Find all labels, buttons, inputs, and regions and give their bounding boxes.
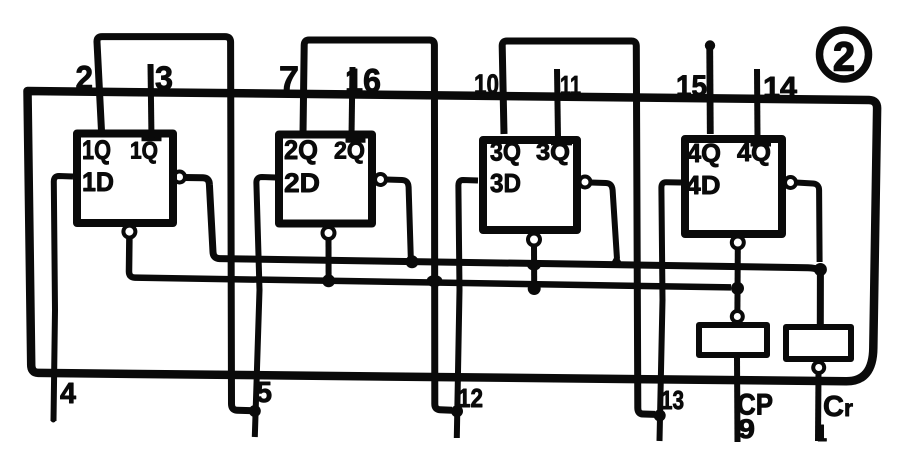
wire pin2 bracket over latch U1 down to pin 5 xyxy=(97,37,250,411)
junction CP bus end xyxy=(731,282,744,295)
latch U1 reset bubble xyxy=(174,172,185,183)
wire 2D input down to pin 5 xyxy=(255,177,276,437)
latch U1 enable bubble xyxy=(123,226,135,238)
svg-text:12: 12 xyxy=(458,383,483,413)
latch U4 enable bubble xyxy=(732,237,744,249)
svg-text:4D: 4D xyxy=(686,170,721,200)
wire U2 reset bubble to bus xyxy=(386,180,411,259)
latch U1 box xyxy=(77,134,173,224)
wire Cr buffer output to pin 1 xyxy=(815,373,822,441)
svg-text:2: 2 xyxy=(833,34,855,80)
wire pin14 lead into 4Q-bar xyxy=(754,69,761,138)
wire pin4 tip blob xyxy=(51,418,56,423)
wire enable bus from U1 bubble to CP buffer xyxy=(129,238,731,288)
latch U3 box xyxy=(483,140,577,230)
svg-text:2: 2 xyxy=(76,59,94,96)
junction pin 5 xyxy=(249,405,261,417)
svg-text:1D: 1D xyxy=(82,167,114,197)
svg-text:10: 10 xyxy=(474,69,499,100)
junction U3 reset on bus xyxy=(609,254,625,268)
wire pin11 lead into 3Q-bar xyxy=(557,69,558,138)
buffer CP box xyxy=(699,325,767,355)
svg-text:1Q: 1Q xyxy=(82,135,111,165)
svg-text:2D: 2D xyxy=(284,168,320,198)
latch U3 label 3Q-bar xyxy=(536,139,572,166)
svg-text:11: 11 xyxy=(560,71,581,101)
wire U4 reset bubble to bus xyxy=(796,183,820,263)
IC package outline xyxy=(28,91,878,381)
latch U3 reset bubble xyxy=(580,177,591,188)
latch U4 reset bubble xyxy=(785,177,796,188)
wire pin7 bracket over latch U2 down to pin 12 xyxy=(303,40,452,410)
wire pin16 lead into 2Q-bar xyxy=(352,67,353,137)
junction Cr bus corner xyxy=(814,263,827,276)
latch U3 enable bubble xyxy=(528,234,540,246)
wire 1D input to pin 4 xyxy=(54,176,74,421)
latch U1 label 1Q-bar xyxy=(130,138,162,165)
latch U2 label 2Q-bar xyxy=(334,138,366,165)
wire pin15 lead into 4Q xyxy=(706,45,713,134)
svg-text:3Q: 3Q xyxy=(490,137,521,167)
wire reset bus from U1 bubble to Cr buffer xyxy=(185,178,821,327)
junction pin 13 xyxy=(654,410,666,422)
svg-text:16: 16 xyxy=(345,62,381,99)
latch U4 box xyxy=(685,139,782,234)
buffer Cr box xyxy=(786,327,851,359)
svg-text:Cr: Cr xyxy=(823,391,853,423)
ink blob at U3 enable/reset-bus crossing xyxy=(527,260,541,271)
svg-text:5: 5 xyxy=(256,377,272,409)
svg-text:1: 1 xyxy=(817,420,827,446)
pin15 lead tip blob xyxy=(705,40,715,50)
svg-text:14: 14 xyxy=(763,72,797,104)
junction U2 reset on bus xyxy=(406,255,419,268)
wire U3 enable bubble to bus xyxy=(531,246,537,287)
wire 3D input down to pin 12 xyxy=(457,180,478,438)
wire pin3 lead into 1Q-bar xyxy=(151,64,152,139)
wire pin10 bracket over latch U3 down to pin 13 xyxy=(502,41,655,414)
latch U4 label 4Q-bar xyxy=(737,139,771,167)
junction pin 12 xyxy=(451,405,463,417)
buffer Cr output bubble xyxy=(813,362,824,373)
svg-text:4: 4 xyxy=(60,378,76,410)
svg-text:1Q: 1Q xyxy=(130,138,158,165)
wire CP buffer output to pin 9 xyxy=(734,358,741,442)
svg-text:3D: 3D xyxy=(490,168,521,198)
latch U2 reset bubble xyxy=(375,174,386,185)
junction U3 enable on bus xyxy=(528,282,541,295)
wire 4D input down to pin 13 xyxy=(660,182,682,441)
svg-text:3: 3 xyxy=(155,60,173,97)
svg-text:13: 13 xyxy=(661,385,684,415)
latch U2 box xyxy=(279,135,372,224)
svg-text:4Q: 4Q xyxy=(687,138,721,168)
wire U4 enable bubble down to CP buffer bubble xyxy=(734,249,740,311)
figure number 2 (circled) xyxy=(820,30,869,79)
buffer CP input bubble xyxy=(732,311,743,322)
latch U2 enable bubble xyxy=(323,227,335,239)
svg-text:7: 7 xyxy=(279,60,299,97)
wire U2 enable bubble to bus xyxy=(326,239,332,281)
ink blob at bracket2/bus crossing xyxy=(427,275,443,287)
junction U2 enable on bus xyxy=(322,274,335,287)
svg-text:2Q: 2Q xyxy=(284,135,318,165)
svg-text:9: 9 xyxy=(738,414,755,444)
svg-text:15: 15 xyxy=(676,70,707,103)
wire U3 reset bubble to bus xyxy=(591,183,618,260)
